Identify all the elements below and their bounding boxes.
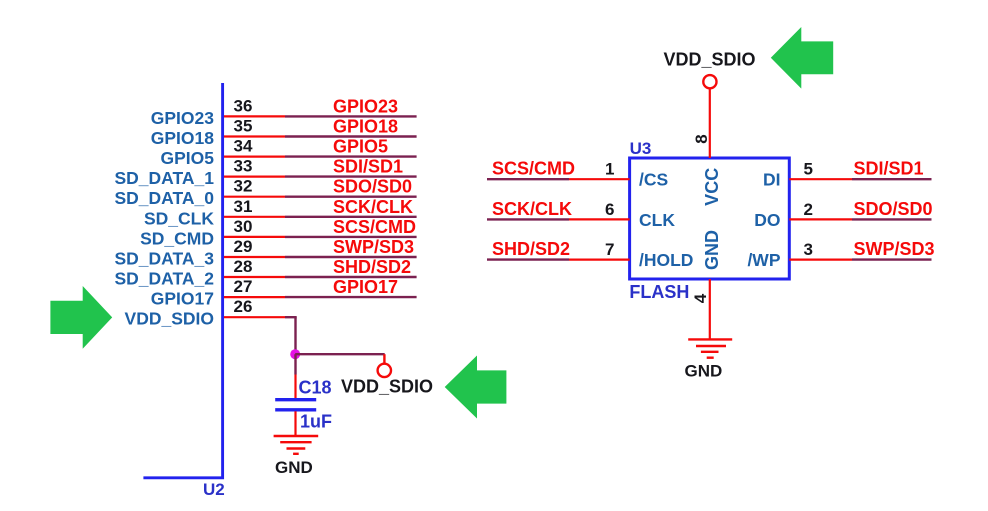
wire pin 33 red segment bbox=[224, 176, 285, 178]
svg-text:SDI/SD1: SDI/SD1 bbox=[333, 157, 403, 177]
svg-text:GPIO17: GPIO17 bbox=[151, 289, 214, 309]
wire pin 29 red segment bbox=[224, 256, 285, 258]
IC U2 body (left edge and bottom edge) bbox=[143, 83, 222, 478]
svg-text:SD_DATA_0: SD_DATA_0 bbox=[114, 188, 214, 208]
svg-text:GPIO18: GPIO18 bbox=[333, 117, 398, 137]
svg-text:/CS: /CS bbox=[639, 170, 668, 190]
svg-text:6: 6 bbox=[605, 200, 614, 219]
svg-text:GND: GND bbox=[702, 230, 722, 270]
svg-text:SD_DATA_3: SD_DATA_3 bbox=[114, 249, 214, 269]
svg-text:SCK/CLK: SCK/CLK bbox=[492, 199, 572, 219]
svg-text:SWP/SD3: SWP/SD3 bbox=[333, 237, 414, 257]
green arrow pointing left at VDD_SDIO power flag bbox=[771, 27, 833, 89]
wire pin 26 red segment bbox=[224, 316, 285, 318]
ground symbol at U3 bbox=[688, 339, 732, 357]
svg-text:31: 31 bbox=[234, 197, 253, 216]
wire pin 30 red segment bbox=[224, 236, 285, 238]
svg-text:VDD_SDIO: VDD_SDIO bbox=[125, 309, 214, 329]
svg-text:2: 2 bbox=[804, 200, 813, 219]
svg-text:27: 27 bbox=[234, 277, 253, 296]
svg-text:GPIO17: GPIO17 bbox=[333, 277, 398, 297]
wire GND pin 4 bbox=[709, 279, 711, 339]
svg-text:DI: DI bbox=[763, 170, 781, 190]
svg-text:U2: U2 bbox=[203, 480, 225, 499]
wire pin 32 net segment bbox=[285, 195, 417, 197]
svg-text:SD_DATA_2: SD_DATA_2 bbox=[114, 269, 214, 289]
wire pin 26 maroon segment to corner bbox=[285, 316, 297, 318]
svg-text:7: 7 bbox=[605, 240, 614, 259]
svg-text:SCK/CLK: SCK/CLK bbox=[333, 197, 413, 217]
svg-text:28: 28 bbox=[234, 257, 253, 276]
svg-text:GPIO23: GPIO23 bbox=[151, 108, 214, 128]
svg-text:GND: GND bbox=[275, 458, 313, 477]
wire pin 31 red segment bbox=[224, 216, 285, 218]
wire pin 34 red segment bbox=[224, 156, 285, 158]
svg-text:35: 35 bbox=[234, 117, 253, 136]
wire pin 30 net segment bbox=[285, 236, 417, 238]
wire pin 36 red segment bbox=[224, 115, 285, 117]
wire junction to C18 top plate bbox=[294, 354, 296, 374]
svg-text:GND: GND bbox=[685, 362, 723, 381]
svg-text:VCC: VCC bbox=[702, 168, 722, 206]
wire pin 32 red segment bbox=[224, 196, 285, 198]
wire U3 pin 1 net segment bbox=[487, 178, 569, 180]
wire pin 35 red segment bbox=[224, 135, 285, 137]
svg-text:SCS/CMD: SCS/CMD bbox=[492, 159, 575, 179]
wire vertical drop from pin 26 bbox=[294, 317, 296, 354]
wire U3 pin 6 net segment bbox=[487, 218, 569, 220]
svg-text:VDD_SDIO: VDD_SDIO bbox=[664, 50, 756, 70]
wire U3 pin 5 red segment bbox=[789, 178, 852, 180]
svg-text:FLASH: FLASH bbox=[629, 282, 689, 302]
svg-text:3: 3 bbox=[804, 240, 813, 259]
svg-text:/WP: /WP bbox=[747, 250, 780, 270]
wire U3 pin 5 net segment bbox=[852, 178, 932, 180]
svg-text:8: 8 bbox=[692, 134, 711, 143]
svg-text:GPIO5: GPIO5 bbox=[333, 137, 388, 157]
svg-text:SDO/SD0: SDO/SD0 bbox=[333, 177, 412, 197]
wire maroon-to-red to C18 bbox=[294, 375, 296, 399]
wire pin 34 net segment bbox=[285, 155, 417, 157]
svg-text:SDI/SD1: SDI/SD1 bbox=[854, 159, 924, 179]
svg-text:32: 32 bbox=[234, 177, 253, 196]
capacitor C18 top plate bbox=[275, 398, 316, 401]
svg-text:GPIO23: GPIO23 bbox=[333, 96, 398, 116]
svg-text:U3: U3 bbox=[630, 139, 652, 158]
wire stub to terminal circle bbox=[383, 354, 385, 364]
wire VCC pin 8 bbox=[709, 88, 711, 158]
svg-text:C18: C18 bbox=[299, 378, 332, 398]
svg-text:33: 33 bbox=[234, 157, 253, 176]
svg-text:SHD/SD2: SHD/SD2 bbox=[492, 239, 570, 259]
svg-text:SD_CLK: SD_CLK bbox=[144, 208, 214, 228]
svg-text:GPIO5: GPIO5 bbox=[161, 148, 215, 168]
wire pin 28 net segment bbox=[285, 276, 417, 278]
terminal circle VDD_SDIO bbox=[378, 364, 391, 377]
IC U3 body bbox=[630, 158, 790, 279]
wire pin 31 net segment bbox=[285, 216, 417, 218]
wire U3 pin 1 red segment bbox=[569, 178, 630, 180]
wire C18 to ground bbox=[294, 411, 296, 435]
svg-text:26: 26 bbox=[234, 297, 253, 316]
wire pin 27 red segment bbox=[224, 296, 285, 298]
wire pin 28 red segment bbox=[224, 276, 285, 278]
wire U3 pin 2 net segment bbox=[852, 218, 932, 220]
ground symbol at C18 bbox=[274, 436, 319, 454]
svg-text:CLK: CLK bbox=[639, 210, 675, 230]
svg-text:SHD/SD2: SHD/SD2 bbox=[333, 257, 411, 277]
svg-text:1: 1 bbox=[605, 160, 614, 179]
svg-text:30: 30 bbox=[234, 217, 253, 236]
wire U3 pin 6 red segment bbox=[569, 218, 630, 220]
svg-text:GPIO18: GPIO18 bbox=[151, 128, 214, 148]
junction dot bbox=[290, 349, 300, 359]
wire pin 27 net segment bbox=[285, 296, 417, 298]
green arrow pointing left at VDD_SDIO terminal bbox=[445, 356, 507, 419]
svg-text:1uF: 1uF bbox=[300, 412, 332, 432]
svg-text:36: 36 bbox=[234, 96, 253, 115]
svg-text:SD_DATA_1: SD_DATA_1 bbox=[114, 168, 214, 188]
svg-text:SCS/CMD: SCS/CMD bbox=[333, 217, 416, 237]
wire pin 29 net segment bbox=[285, 256, 417, 258]
svg-text:SD_CMD: SD_CMD bbox=[140, 228, 214, 248]
wire junction to VDD_SDIO terminal bbox=[295, 353, 385, 355]
svg-text:5: 5 bbox=[804, 160, 813, 179]
wire U3 pin 3 red segment bbox=[789, 259, 852, 261]
wire pin 33 net segment bbox=[285, 175, 417, 177]
svg-text:/HOLD: /HOLD bbox=[639, 250, 693, 270]
svg-text:SDO/SD0: SDO/SD0 bbox=[854, 199, 933, 219]
wire pin 35 net segment bbox=[285, 135, 417, 137]
svg-text:29: 29 bbox=[234, 237, 253, 256]
capacitor C18 bottom plate bbox=[275, 408, 316, 411]
wire U3 pin 2 red segment bbox=[789, 218, 852, 220]
svg-text:4: 4 bbox=[691, 293, 710, 303]
wire U3 pin 3 net segment bbox=[852, 258, 932, 260]
wire pin 36 net segment bbox=[285, 115, 417, 117]
svg-text:DO: DO bbox=[754, 210, 780, 230]
svg-text:SWP/SD3: SWP/SD3 bbox=[854, 239, 935, 259]
power flag circle VDD_SDIO bbox=[703, 75, 716, 88]
svg-text:VDD_SDIO: VDD_SDIO bbox=[341, 377, 433, 397]
wire U3 pin 7 net segment bbox=[487, 258, 569, 260]
green arrow pointing right at VDD_SDIO pin name bbox=[50, 286, 112, 349]
svg-text:34: 34 bbox=[234, 137, 253, 156]
wire U3 pin 7 red segment bbox=[569, 259, 630, 261]
